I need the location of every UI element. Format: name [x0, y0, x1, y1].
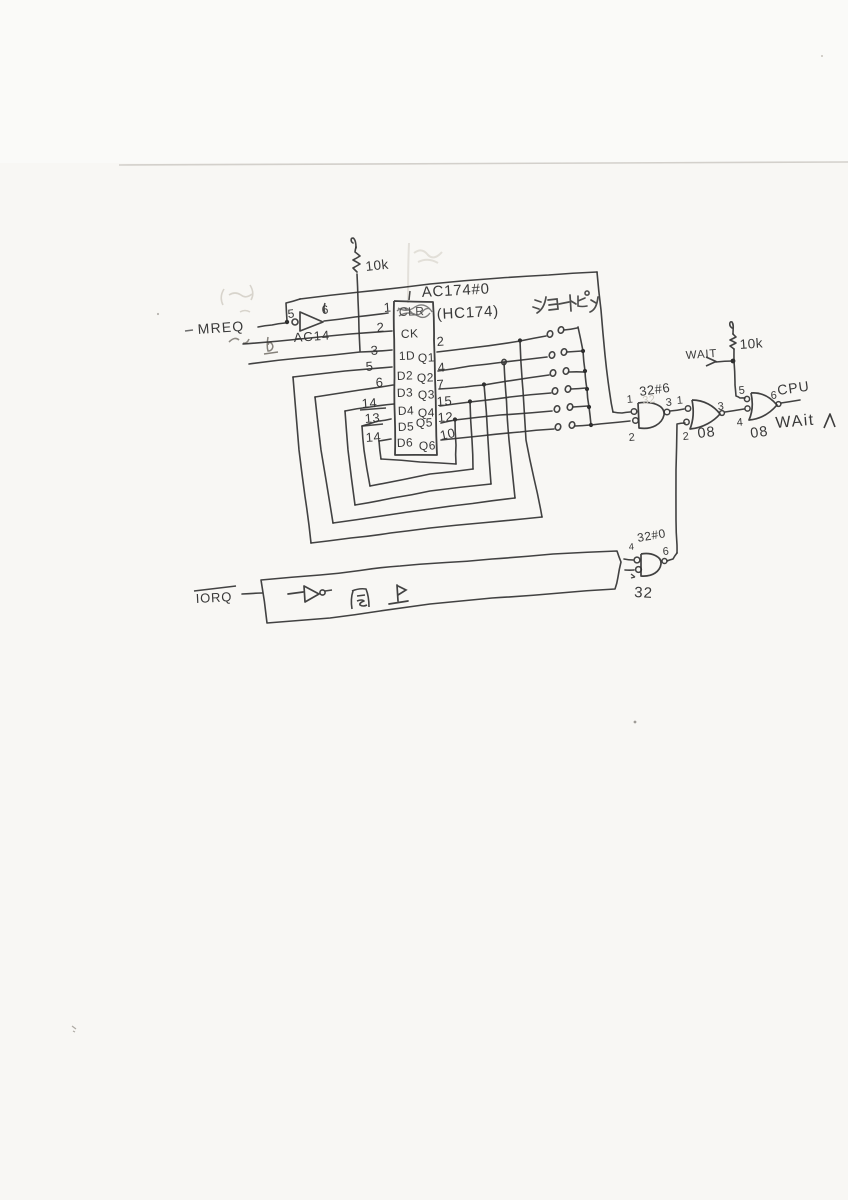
svg-text:4: 4 — [736, 416, 744, 429]
wire bus to gate U2 pin2 — [591, 421, 630, 425]
svg-text:3: 3 — [665, 396, 673, 409]
gate U4 output bubble — [776, 402, 781, 407]
svg-text:15: 15 — [436, 393, 452, 409]
svg-text:3: 3 — [370, 342, 379, 358]
note katakana yo — [548, 299, 558, 310]
wire jumper row3 to bus — [569, 371, 584, 373]
svg-text:2: 2 — [436, 333, 445, 349]
IC pin16 tick above body — [409, 291, 410, 300]
jumper row5 right pin — [566, 403, 573, 411]
svg-text:D5: D5 — [398, 419, 415, 434]
wire loop1 left up — [293, 377, 311, 543]
wire loop5 Q5 to D6 down — [455, 419, 456, 464]
WAIT arrow head — [706, 357, 716, 366]
wire inverter output to IC pin1 — [324, 313, 388, 321]
junction bus row6 — [589, 423, 593, 427]
IORQ ditto box outline — [261, 551, 621, 623]
wire MREQ node up to top loop — [286, 299, 300, 321]
svg-text:10k: 10k — [739, 335, 763, 352]
wire Q3 output — [439, 375, 549, 389]
pin 13 underline — [363, 424, 383, 426]
wire D1 input — [249, 350, 392, 364]
wire U2 out to U3gate in — [670, 409, 684, 411]
ditto inverter triangle — [304, 586, 319, 602]
gate U2 input bubble pin1 — [631, 409, 637, 415]
svg-text:2: 2 — [376, 319, 385, 335]
gate U5 AND body — [641, 554, 661, 577]
erased pencil ghost text — [229, 293, 252, 312]
svg-text:D4: D4 — [398, 403, 415, 418]
junction Q3 loop — [482, 382, 486, 386]
pencil dash left of MREQ — [185, 330, 193, 331]
note katakana shi — [533, 297, 546, 313]
resistor R1 zigzag — [353, 247, 360, 272]
gate U3g input bubble pin1 — [685, 406, 690, 411]
jumper row3 right pin — [562, 367, 569, 375]
ditto inverter bubble — [320, 590, 325, 595]
gate U2 input bubble pin2 — [633, 418, 639, 424]
gate U2 OR body — [638, 403, 664, 429]
svg-text:2: 2 — [628, 431, 636, 444]
jumper row4 left pin — [551, 387, 558, 395]
wire jumper bus vertical — [578, 327, 591, 425]
svg-text:D3: D3 — [397, 385, 414, 400]
svg-text:WAit: WAit — [775, 412, 816, 432]
junction Q5 loop — [453, 417, 457, 421]
wire loop2 left up — [315, 397, 333, 523]
wire U3g pin2 down to IORQ gate — [676, 423, 685, 553]
jumper row6 right pin — [568, 421, 575, 429]
jumper row3 left pin — [549, 369, 556, 377]
pin mark below U5 — [631, 574, 635, 578]
wire ditto box to U5 pin4 — [624, 559, 633, 560]
wire loop2 Q2 to D3 down — [504, 362, 515, 498]
wire jumper row5 to bus — [573, 406, 588, 407]
inverter U1 triangle — [300, 312, 323, 331]
wire loop4 left up — [362, 426, 370, 486]
jumper row1 left pin — [546, 330, 553, 338]
wire loop4 top into D5 pin13 — [362, 419, 391, 426]
svg-text:Q1: Q1 — [418, 350, 435, 365]
wire Q5 output — [441, 411, 552, 423]
svg-text:1D: 1D — [399, 348, 416, 363]
note katakana dash — [559, 302, 569, 304]
junction bus row4 — [585, 387, 589, 391]
wire top loop into gate U2 pin1 — [613, 412, 630, 413]
resistor R2 zigzag — [730, 334, 736, 349]
svg-text:Q3: Q3 — [418, 387, 435, 402]
junction bus row2 — [581, 349, 585, 353]
resistor R2 lead to node — [733, 349, 735, 361]
wire U3g out to U4 pin4 — [725, 409, 744, 412]
wire loop4 bottom — [370, 469, 473, 486]
wire jumper row4 to bus — [571, 388, 586, 389]
gate U5 input bubble bottom — [636, 567, 642, 573]
wire CPU WAIT output — [781, 400, 800, 403]
gate U4 input bubble pin4 — [745, 406, 750, 411]
svg-text:1: 1 — [676, 394, 684, 407]
svg-text:5: 5 — [287, 306, 295, 321]
wire Q4 output — [440, 393, 551, 406]
jumper row1 right pin — [557, 326, 564, 334]
wire jumper row6 to bus — [575, 425, 590, 426]
kanji ue — [389, 585, 408, 604]
wire jumper row2 to bus — [567, 351, 582, 352]
pencil mark paren — [229, 338, 249, 343]
svg-text:1: 1 — [626, 393, 634, 406]
svg-text:6: 6 — [662, 545, 670, 558]
wire jumper row1 to bus — [564, 328, 577, 330]
svg-text:(HC174): (HC174) — [436, 303, 499, 323]
wire loop4 Q4 to D5 down — [470, 401, 473, 469]
wire top loop down right side — [597, 272, 613, 412]
wire WAIT arrow shaft — [716, 361, 733, 362]
pin 14 underline — [360, 408, 386, 410]
jumper row2 right pin — [560, 348, 567, 356]
gate U5 output bubble — [662, 559, 667, 564]
junction Q1 loop — [518, 338, 522, 342]
svg-text:32: 32 — [642, 393, 657, 407]
label WAIT caret — [824, 414, 835, 428]
label IORQ overline — [194, 586, 236, 591]
junction bus row5 — [587, 405, 591, 409]
gate U3g input bubble pin2 — [684, 419, 689, 424]
paper speck mid — [634, 721, 637, 724]
wire loop5 top into D6 pin — [379, 439, 391, 441]
wire top loop across page — [300, 272, 597, 299]
svg-text:08: 08 — [749, 424, 769, 442]
paper mark bottom left — [72, 1026, 76, 1032]
erased pencil ghost paren — [221, 285, 253, 305]
note katakana n — [590, 297, 598, 312]
kanji dou — [351, 589, 369, 609]
wire Q1 output — [437, 336, 546, 352]
erased pencil ghost vertical — [408, 243, 409, 303]
junction bus row3 — [583, 369, 587, 373]
gate U2 output bubble — [664, 409, 670, 415]
resistor R2 top hook — [730, 322, 734, 334]
resistor R1 lead down to D1 node — [357, 274, 360, 351]
svg-text:AC174#0: AC174#0 — [421, 280, 490, 301]
junction MREQ node — [285, 320, 289, 324]
wire loop1 Q1 to D2 down — [520, 341, 542, 517]
wire loop2 top into D3 pin6 — [315, 385, 393, 397]
wire MREQ to inverter — [258, 323, 285, 327]
note katakana pi — [578, 291, 589, 306]
IC U3 body outline — [394, 301, 437, 455]
resistor R1 top hook — [351, 238, 356, 248]
svg-text:IORQ: IORQ — [195, 589, 232, 606]
pencil mark b — [264, 337, 278, 354]
wire Q6 output — [441, 429, 554, 440]
wire loop3 bottom — [355, 484, 491, 505]
gate U4 input bubble pin5 — [744, 396, 749, 401]
svg-text:5: 5 — [738, 384, 746, 397]
erased pencil ghost scribble — [414, 250, 442, 263]
svg-text:1: 1 — [383, 299, 392, 315]
jumper row2 left pin — [548, 351, 555, 359]
wire IORQ to box — [242, 593, 262, 594]
pin 6 stroke flourish — [324, 303, 325, 313]
svg-text:D6: D6 — [397, 435, 414, 450]
wire CK input — [243, 331, 392, 344]
svg-text:32: 32 — [634, 584, 654, 602]
svg-text:4: 4 — [628, 542, 635, 553]
wire Q2 output — [438, 357, 547, 371]
gate U5 input bubble top — [634, 557, 640, 563]
inverter U1 input bubble — [292, 319, 298, 325]
svg-text:10k: 10k — [365, 257, 390, 274]
wire loop5 bottom — [381, 459, 456, 464]
IC label CLR scribble — [397, 305, 432, 318]
svg-text:5: 5 — [365, 358, 374, 374]
gate U4 AND body — [749, 393, 777, 420]
paper scan seam line — [119, 162, 848, 165]
gate U3g AND body — [690, 400, 720, 429]
svg-text:Q2: Q2 — [417, 370, 434, 385]
jumper row6 left pin — [554, 423, 561, 431]
ditto inverter input dash — [288, 592, 303, 594]
svg-text:MREQ: MREQ — [197, 318, 245, 337]
wire loop3 Q3 to D4 down — [484, 384, 491, 484]
wire loop2 bottom — [333, 498, 515, 523]
junction Q2 loop circle — [501, 359, 506, 365]
svg-text:4: 4 — [437, 359, 446, 375]
jumper row4 right pin — [564, 385, 571, 393]
note katakana to — [570, 295, 576, 311]
wire loop3 left up — [345, 411, 355, 505]
svg-text:Q5: Q5 — [416, 415, 433, 430]
svg-text:D2: D2 — [397, 368, 414, 383]
wire loop1 top into D2 pin5 — [293, 367, 392, 377]
wire U5 output up — [667, 553, 677, 561]
paper speck top right — [821, 55, 823, 57]
wire WAIT node down to gate U4 pin5 — [734, 361, 745, 398]
svg-text:CK: CK — [401, 326, 419, 341]
wire loop3 top into D4 pin — [345, 404, 394, 411]
junction Q4 loop — [468, 399, 472, 403]
svg-text:08: 08 — [697, 424, 717, 442]
svg-text:Q6: Q6 — [419, 438, 436, 453]
wire ditto box to U5 pin5 — [625, 569, 634, 571]
junction WAIT node — [731, 359, 736, 364]
wire loop5 left up — [379, 441, 381, 459]
gate U3g output bubble — [720, 411, 725, 416]
wire loop1 bottom — [311, 517, 542, 543]
paper speck left margin — [157, 313, 159, 315]
svg-text:2: 2 — [682, 430, 690, 443]
jumper row5 left pin — [553, 405, 560, 413]
svg-text:3: 3 — [717, 400, 725, 413]
